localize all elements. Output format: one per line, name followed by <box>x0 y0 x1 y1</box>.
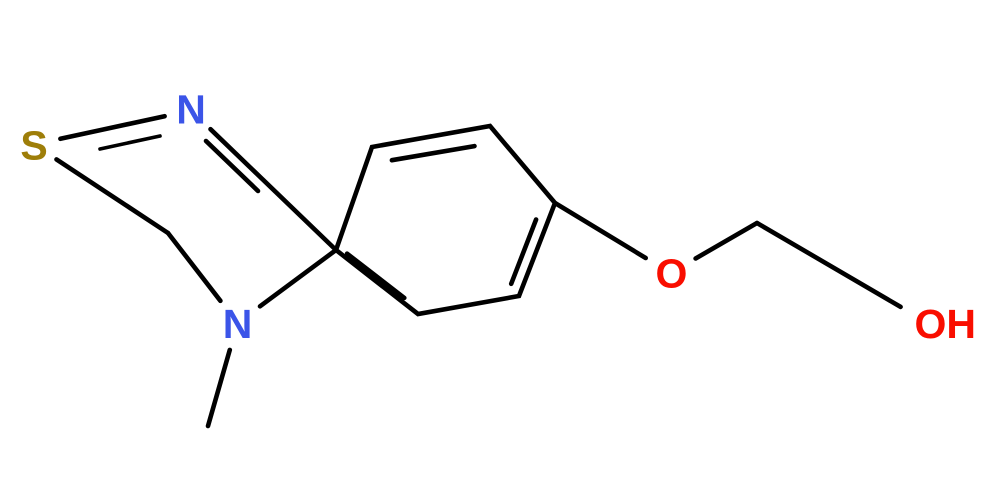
bond S to N top <box>60 116 164 139</box>
bond kink A to N bottom <box>168 233 220 301</box>
bond chain C1 through C2 to OH <box>757 223 901 307</box>
bond S to CH2 kink A <box>57 159 169 233</box>
svg-text:OH: OH <box>915 301 977 347</box>
bond N bottom to methyl <box>208 350 230 426</box>
benzene ring outline <box>336 126 555 314</box>
svg-text:O: O <box>656 251 688 297</box>
bond O to chain peak C1 <box>696 223 757 259</box>
svg-text:N: N <box>176 87 206 133</box>
bond S=N inner double line <box>100 136 160 149</box>
bond N top to ring left vertex (imine) <box>211 129 337 250</box>
benzene inner double line lower-left edge <box>347 254 404 298</box>
bond N bottom to ring left vertex <box>260 250 336 306</box>
svg-text:S: S <box>20 123 47 169</box>
svg-text:N: N <box>223 301 253 347</box>
bond imine inner double line <box>206 141 258 191</box>
benzene inner double line right edge <box>511 220 536 284</box>
benzene inner double line top edge <box>392 146 475 160</box>
bond ring right vertex to O <box>555 203 646 258</box>
